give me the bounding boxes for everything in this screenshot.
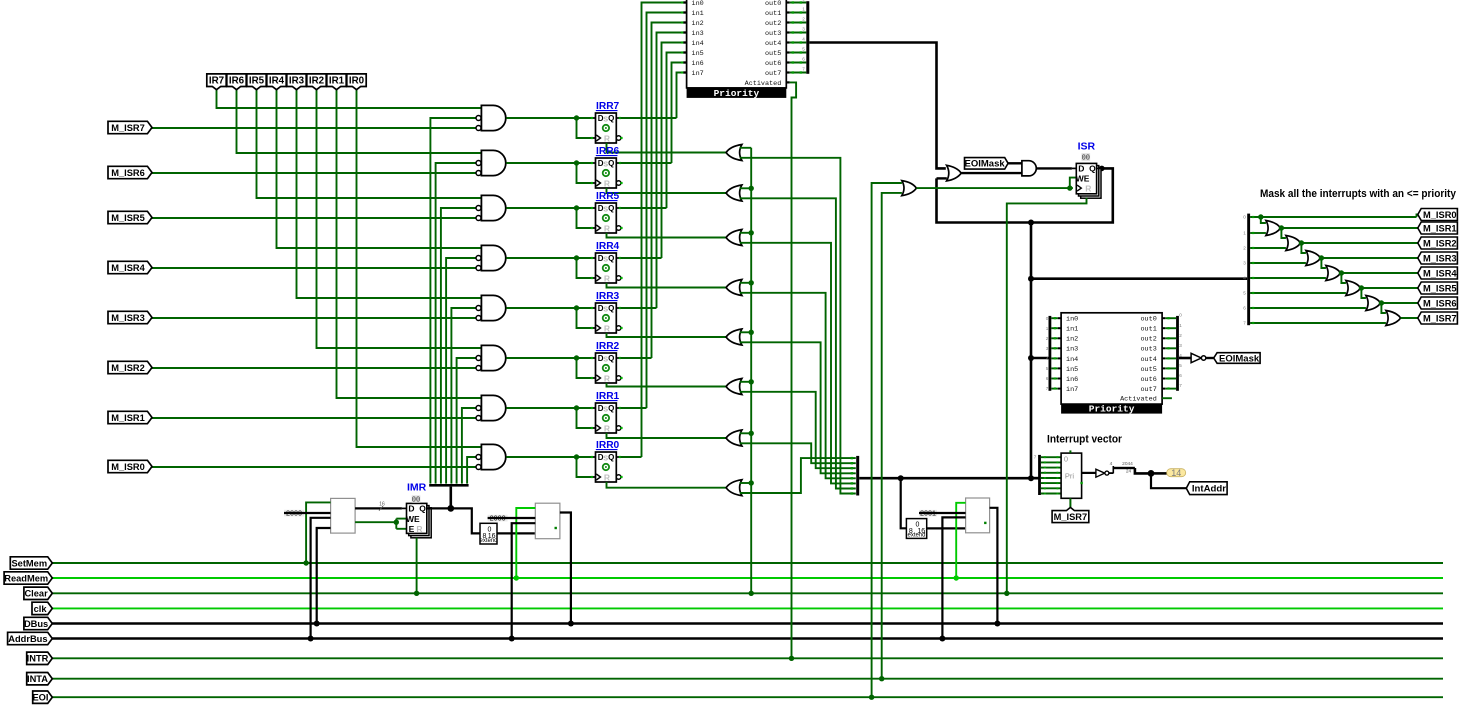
svg-text:0: 0: [802, 0, 805, 1]
svg-text:Q: Q: [608, 453, 614, 462]
svg-text:R: R: [604, 423, 610, 433]
svg-text:R: R: [1085, 184, 1091, 194]
svg-text:7: 7: [1034, 455, 1037, 460]
svg-text:out5: out5: [765, 50, 781, 58]
svg-text:R: R: [604, 323, 610, 333]
svg-text:5: 5: [1179, 363, 1182, 368]
svg-text:R: R: [604, 472, 610, 482]
svg-text:in0: in0: [1066, 316, 1078, 324]
svg-text:Q: Q: [608, 354, 614, 363]
svg-text:IR4: IR4: [269, 75, 285, 86]
svg-text:in7: in7: [692, 70, 704, 78]
svg-text:M_ISR1: M_ISR1: [111, 413, 145, 423]
svg-text:4: 4: [1110, 461, 1113, 467]
svg-text:out3: out3: [1140, 346, 1156, 354]
svg-text:M_ISR7: M_ISR7: [111, 123, 145, 133]
svg-text:in1: in1: [1066, 326, 1078, 334]
svg-text:in0: in0: [692, 0, 704, 8]
svg-text:6: 6: [802, 56, 805, 61]
svg-text:in6: in6: [692, 60, 704, 68]
svg-text:4: 4: [1046, 356, 1049, 361]
svg-text:out4: out4: [1140, 356, 1156, 364]
svg-text:out2: out2: [1140, 336, 1156, 344]
svg-text:M_ISR2: M_ISR2: [1423, 238, 1457, 248]
svg-text:M_ISR6: M_ISR6: [111, 168, 145, 178]
svg-text:Activated: Activated: [745, 80, 782, 88]
svg-text:Priority: Priority: [714, 88, 760, 99]
svg-text:M_ISR3: M_ISR3: [1423, 253, 1457, 263]
svg-text:6: 6: [1243, 306, 1246, 311]
svg-text:in4: in4: [1066, 356, 1078, 364]
svg-text:0: 0: [1064, 455, 1068, 464]
svg-text:extend: extend: [479, 538, 497, 544]
svg-text:M_ISR7: M_ISR7: [1423, 313, 1457, 323]
svg-text:IR3: IR3: [289, 75, 305, 86]
svg-text:extend: extend: [907, 533, 925, 539]
svg-text:R: R: [604, 223, 610, 233]
svg-text:M_ISR2: M_ISR2: [111, 363, 145, 373]
svg-text:2044: 2044: [1122, 461, 1133, 467]
svg-text:Interrupt vector: Interrupt vector: [1047, 433, 1123, 445]
svg-text:in2: in2: [692, 20, 704, 28]
svg-text:M_ISR4: M_ISR4: [1423, 268, 1457, 278]
svg-text:2: 2: [802, 16, 805, 21]
svg-text:R: R: [604, 373, 610, 383]
svg-text:3: 3: [1179, 343, 1182, 348]
svg-text:IR0: IR0: [349, 75, 365, 86]
svg-text:out1: out1: [765, 10, 781, 18]
svg-text:in2: in2: [1066, 336, 1078, 344]
svg-text:00: 00: [412, 497, 420, 505]
svg-text:1: 1: [802, 6, 805, 11]
svg-text:out3: out3: [765, 30, 781, 38]
svg-text:R: R: [604, 178, 610, 188]
svg-text:IR2: IR2: [309, 75, 325, 86]
svg-text:in6: in6: [1066, 376, 1078, 384]
svg-text:Q: Q: [608, 114, 614, 123]
svg-text:EOI: EOI: [32, 693, 48, 703]
svg-text:out2: out2: [765, 20, 781, 28]
svg-text:IntAddr: IntAddr: [1192, 484, 1226, 495]
svg-text:24: 24: [1126, 469, 1132, 475]
svg-text:out7: out7: [765, 70, 781, 78]
svg-text:Q: Q: [608, 404, 614, 413]
svg-text:0: 0: [1179, 313, 1182, 318]
svg-text:Activated: Activated: [1120, 396, 1157, 404]
svg-text:ISR: ISR: [1078, 140, 1096, 152]
svg-text:out0: out0: [1140, 316, 1156, 324]
svg-text:R: R: [416, 524, 422, 534]
svg-text:clk: clk: [34, 604, 48, 614]
svg-text:3: 3: [1046, 346, 1049, 351]
svg-text:IR1: IR1: [329, 75, 345, 86]
svg-text:M_ISR1: M_ISR1: [1423, 223, 1457, 233]
svg-text:3: 3: [1243, 261, 1246, 266]
svg-text:in1: in1: [692, 10, 704, 18]
svg-text:5: 5: [802, 46, 805, 51]
svg-text:WE: WE: [1076, 173, 1090, 183]
svg-text:in5: in5: [1066, 366, 1078, 374]
svg-text:ReadMem: ReadMem: [4, 573, 48, 583]
svg-text:M_ISR6: M_ISR6: [1423, 298, 1457, 308]
svg-text:M_ISR5: M_ISR5: [1423, 283, 1457, 293]
svg-text:in7: in7: [1066, 386, 1078, 394]
svg-text:5: 5: [1046, 366, 1049, 371]
svg-text:Q: Q: [608, 254, 614, 263]
svg-text:Q: Q: [419, 504, 426, 514]
svg-text:Pri: Pri: [1065, 472, 1075, 481]
svg-text:2: 2: [1179, 333, 1182, 338]
svg-text:Q: Q: [608, 204, 614, 213]
svg-text:2: 2: [1243, 246, 1246, 251]
svg-text:EOIMask: EOIMask: [1219, 353, 1260, 364]
svg-text:AddrBus: AddrBus: [8, 634, 47, 644]
svg-text:in4: in4: [692, 40, 704, 48]
svg-text:out0: out0: [765, 0, 781, 8]
svg-text:M_ISR3: M_ISR3: [111, 313, 145, 323]
svg-text:INTR: INTR: [27, 654, 49, 664]
svg-text:4: 4: [802, 36, 805, 41]
svg-text:5: 5: [1243, 291, 1246, 296]
svg-text:INTA: INTA: [27, 674, 48, 684]
svg-text:Clear: Clear: [24, 589, 48, 599]
svg-text:7: 7: [802, 66, 805, 71]
svg-text:00: 00: [1082, 154, 1090, 162]
svg-text:6: 6: [1046, 376, 1049, 381]
svg-text:Q: Q: [608, 304, 614, 313]
svg-text:D: D: [408, 504, 414, 514]
svg-text:Mask all the interrupts with a: Mask all the interrupts with an <= prior…: [1260, 188, 1457, 200]
svg-text:WE: WE: [406, 514, 420, 524]
svg-text:M_ISR4: M_ISR4: [111, 263, 145, 273]
svg-text:7: 7: [1179, 383, 1182, 388]
svg-text:out6: out6: [765, 60, 781, 68]
svg-text:EOIMask: EOIMask: [965, 159, 1006, 170]
svg-text:0: 0: [1243, 215, 1246, 220]
svg-text:D: D: [1078, 164, 1084, 174]
svg-text:1: 1: [1179, 323, 1182, 328]
svg-text:out5: out5: [1140, 366, 1156, 374]
svg-text:in3: in3: [692, 30, 704, 38]
svg-text:0: 0: [1046, 316, 1049, 321]
svg-text:out4: out4: [765, 40, 781, 48]
svg-text:M_ISR0: M_ISR0: [1423, 210, 1457, 220]
svg-text:in3: in3: [1066, 346, 1078, 354]
svg-text:M_ISR7: M_ISR7: [1054, 512, 1088, 522]
svg-text:M_ISR5: M_ISR5: [111, 213, 145, 223]
svg-text:IR5: IR5: [249, 75, 265, 86]
svg-text:Q: Q: [608, 159, 614, 168]
svg-text:7: 7: [1046, 386, 1049, 391]
svg-text:3: 3: [802, 26, 805, 31]
svg-text:M_ISR0: M_ISR0: [111, 462, 145, 472]
svg-text:IR6: IR6: [229, 75, 245, 86]
svg-text:1: 1: [1046, 326, 1049, 331]
svg-text:in5: in5: [692, 50, 704, 58]
svg-text:4: 4: [1243, 276, 1246, 281]
svg-text:Q: Q: [1089, 164, 1096, 174]
svg-text:DBus: DBus: [24, 619, 48, 629]
svg-text:out6: out6: [1140, 376, 1156, 384]
svg-text:R: R: [604, 133, 610, 143]
svg-text:out1: out1: [1140, 326, 1156, 334]
svg-text:R: R: [604, 273, 610, 283]
svg-text:Priority: Priority: [1089, 404, 1135, 415]
svg-text:1: 1: [1243, 231, 1246, 236]
svg-text:6: 6: [1179, 373, 1182, 378]
svg-text:out7: out7: [1140, 386, 1156, 394]
svg-text:7: 7: [1243, 321, 1246, 326]
svg-text:2: 2: [1046, 336, 1049, 341]
svg-text:IMR: IMR: [407, 482, 427, 494]
svg-text:E: E: [409, 524, 415, 534]
svg-text:SetMem: SetMem: [11, 558, 47, 568]
svg-text:14: 14: [1171, 468, 1181, 478]
svg-text:IR7: IR7: [209, 75, 225, 86]
